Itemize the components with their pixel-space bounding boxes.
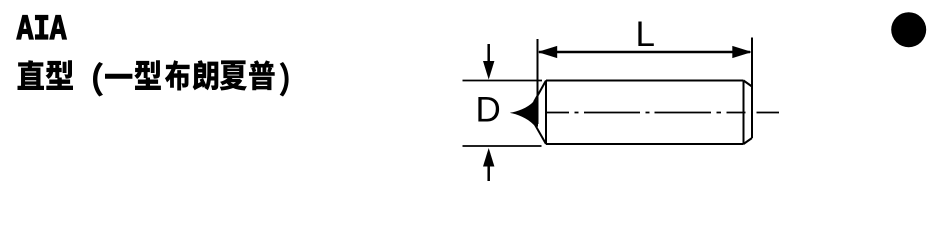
dimension D extension line bottom xyxy=(463,145,542,147)
conical point flanks xyxy=(534,81,546,145)
arrowhead down xyxy=(483,61,494,80)
arrow up to bottom of pin xyxy=(487,164,490,181)
label L xyxy=(636,15,655,54)
arrowhead L right xyxy=(732,46,752,58)
svg-text:AIA: AIA xyxy=(17,10,67,50)
conical point filled tip xyxy=(510,99,538,127)
dimension line L xyxy=(539,51,750,54)
centerline xyxy=(545,112,779,114)
dimension D extension line top xyxy=(463,80,543,82)
bullet circle xyxy=(891,12,926,47)
dimension L extension line right (pin right edge) xyxy=(751,38,753,139)
dimension L extension line left xyxy=(537,39,539,124)
svg-text:D: D xyxy=(476,91,501,130)
subtitle 直型（一型布朗夏普） xyxy=(17,60,288,96)
arrow down to top of pin xyxy=(487,44,490,62)
arrowhead L left xyxy=(538,46,558,58)
pin body outline xyxy=(546,81,752,145)
arrowhead up xyxy=(483,148,494,167)
svg-text:L: L xyxy=(636,15,655,54)
label D xyxy=(476,91,501,130)
title AIA xyxy=(17,10,67,50)
